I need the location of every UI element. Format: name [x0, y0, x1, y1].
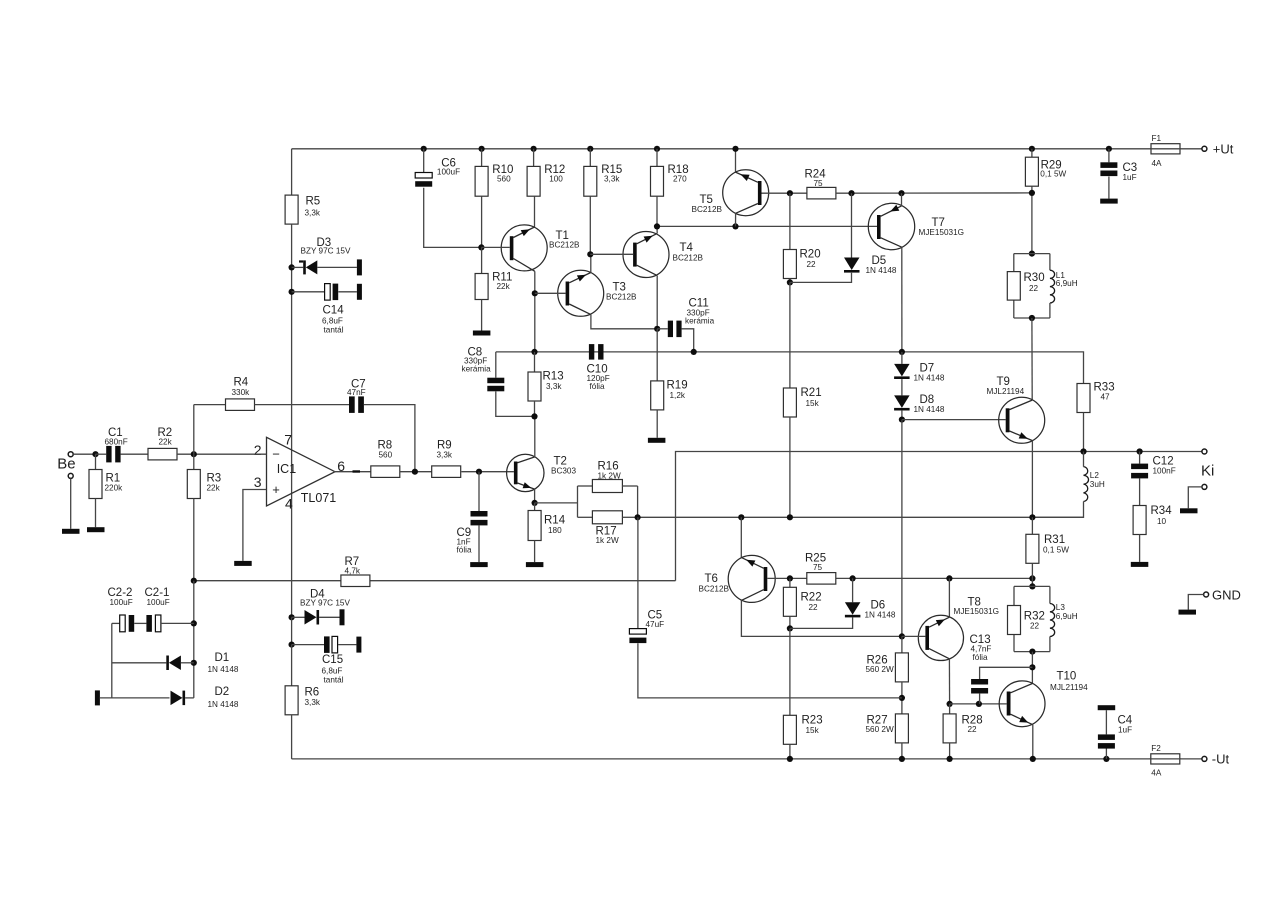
node R20 top — [787, 190, 793, 196]
transistor T10 — [999, 671, 1088, 727]
resistor R6 — [285, 686, 321, 715]
svg-text:BZY 97C 15V: BZY 97C 15V — [301, 247, 351, 256]
svg-text:4: 4 — [285, 496, 293, 512]
wire R5 branch from +Ut — [291, 149, 293, 195]
svg-text:tantál: tantál — [324, 676, 344, 685]
wire R12 top lead — [533, 149, 535, 167]
svg-text:15k: 15k — [806, 399, 820, 408]
resistor R10 — [475, 164, 513, 196]
svg-text:BC212B: BC212B — [692, 205, 723, 214]
wire Be ground lead — [70, 478, 72, 528]
resistor R15 — [584, 164, 623, 196]
node C14 junction — [289, 289, 295, 295]
wire T10 base line — [950, 703, 1007, 705]
svg-text:R30: R30 — [1024, 272, 1045, 284]
diode D5 — [790, 193, 897, 282]
resistor R32 — [1008, 606, 1045, 635]
wire R29 bottom — [1031, 186, 1033, 253]
ground R19 — [648, 438, 666, 443]
svg-text:BC212B: BC212B — [549, 241, 580, 250]
wire R19 to ground — [656, 410, 658, 438]
svg-text:1uF: 1uF — [1118, 726, 1132, 735]
svg-text:-Ut: -Ut — [1212, 752, 1230, 767]
diode D6 — [790, 578, 896, 628]
svg-text:22: 22 — [968, 725, 978, 734]
resistor R20 — [783, 249, 820, 279]
svg-text:BC212B: BC212B — [699, 585, 730, 594]
wire T7 emitter — [901, 193, 903, 206]
svg-text:1N 4148: 1N 4148 — [208, 700, 239, 709]
wire R8 to R9 — [400, 471, 432, 473]
wire -Ut bottom rail — [292, 758, 1202, 760]
resistor R29 — [1025, 157, 1066, 186]
wire output rail — [638, 516, 1084, 518]
svg-text:1N 4148: 1N 4148 — [208, 665, 239, 674]
fuse F2 — [1150, 744, 1181, 778]
wire T6 collector — [741, 600, 902, 636]
wire D7 to D8 — [901, 379, 903, 395]
wire pin3 to ground — [243, 490, 266, 561]
resistor R30 — [1007, 272, 1044, 301]
node -Ut R28 — [947, 756, 953, 762]
node D4 junction — [289, 614, 295, 620]
svg-text:100: 100 — [549, 175, 563, 184]
wire R22 bottom — [789, 616, 791, 628]
svg-text:T4: T4 — [680, 242, 694, 254]
wire feedback up — [193, 405, 195, 455]
node D6 top — [850, 575, 856, 581]
svg-text:22: 22 — [1029, 284, 1039, 293]
svg-text:R14: R14 — [544, 515, 566, 527]
wire R31 top lead — [1031, 517, 1033, 534]
wire +Ut top rail — [292, 148, 1202, 150]
node C15 junction — [289, 642, 295, 648]
node T6 emitter top — [738, 514, 744, 520]
capacitor C8 — [462, 347, 535, 417]
svg-text:1k 2W: 1k 2W — [596, 536, 619, 545]
capacitor C10 — [587, 344, 610, 391]
ground pin3 — [234, 561, 252, 566]
wire C2 mid — [134, 622, 146, 624]
wire R2 to pin2 node — [177, 453, 194, 455]
resistor R16 — [592, 461, 622, 493]
node input — [92, 451, 98, 457]
wire R18 top lead — [656, 149, 658, 167]
wire T1 base node to R11 — [481, 247, 483, 273]
wire R16/R17 right bus — [637, 486, 639, 517]
capacitor C2-2 — [108, 587, 135, 632]
svg-text:fólia: fólia — [973, 653, 988, 662]
svg-text:22k: 22k — [159, 438, 173, 447]
wire T10 emitter — [1032, 725, 1034, 759]
wire R23 lead — [789, 628, 791, 715]
resistor R1 — [89, 454, 123, 527]
wire R17 right lead — [622, 516, 637, 518]
node C11 branch — [691, 349, 697, 355]
wire R32/L3 bottom bus — [1014, 651, 1050, 653]
node T9 emitter/R31 — [1029, 514, 1035, 520]
svg-text:T10: T10 — [1057, 671, 1077, 683]
svg-text:Ki: Ki — [1201, 462, 1214, 479]
resistor R18 — [651, 164, 689, 196]
diode D2 — [100, 686, 239, 709]
svg-text:47: 47 — [1101, 393, 1111, 402]
wire R28 lead — [949, 704, 951, 714]
svg-text:R22: R22 — [801, 592, 822, 604]
wire R16 right lead — [622, 485, 637, 487]
wire T5 base to R24 — [762, 192, 807, 194]
inductor L2 — [1032, 452, 1105, 518]
terminal Be ground — [68, 473, 73, 478]
wire R6 to -Ut rail — [291, 715, 293, 759]
node T8 base — [899, 633, 905, 639]
wire T7 collector to D7 — [901, 352, 903, 364]
resistor R26 — [866, 653, 909, 682]
resistor R8 — [371, 440, 400, 478]
node R18 top — [654, 146, 660, 152]
svg-text:3uH: 3uH — [1090, 480, 1105, 489]
wire T6 base line — [767, 577, 1032, 579]
wire R16 left lead — [578, 485, 593, 487]
svg-text:330k: 330k — [232, 388, 251, 397]
svg-text:100uF: 100uF — [147, 598, 170, 607]
svg-text:22: 22 — [809, 603, 819, 612]
resistor R23 — [783, 715, 822, 745]
wire C7 to output node — [364, 405, 415, 472]
svg-text:180: 180 — [548, 526, 562, 535]
resistor R3 — [187, 454, 221, 498]
node C9 junction — [476, 469, 482, 475]
svg-text:BC212B: BC212B — [606, 293, 637, 302]
wire R7 line — [194, 580, 676, 582]
ground D2 left — [95, 690, 100, 705]
svg-text:D1: D1 — [215, 652, 230, 664]
svg-text:IC1: IC1 — [277, 462, 297, 476]
resistor R2 — [148, 427, 177, 460]
wire T4 collector node down to R19 — [656, 329, 658, 381]
capacitor C15 — [292, 636, 357, 684]
transistor T8 — [918, 597, 999, 661]
svg-text:TL071: TL071 — [301, 491, 336, 505]
svg-text:kerámia: kerámia — [462, 365, 492, 374]
svg-text:1k 2W: 1k 2W — [598, 471, 621, 480]
node C2 junction — [191, 620, 197, 626]
node C3 top — [1106, 146, 1112, 152]
wire T8 collector — [948, 578, 950, 617]
terminal Be input — [57, 452, 75, 473]
node R13 top — [531, 349, 537, 355]
svg-text:22k: 22k — [207, 484, 221, 493]
ground R34 — [1131, 562, 1149, 567]
wire T2 emitter to R16/R17 — [535, 502, 578, 504]
svg-text:3,3k: 3,3k — [437, 451, 453, 460]
transistor T6 — [699, 555, 776, 602]
node mid rail / T7 column — [899, 349, 905, 355]
node C6 top — [421, 146, 427, 152]
transistor T4 — [623, 232, 704, 278]
ground R14 — [526, 562, 544, 567]
svg-text:0,1 5W: 0,1 5W — [1040, 170, 1066, 179]
wire R30/L1 top bus — [1014, 253, 1050, 255]
resistor R17 — [592, 511, 622, 545]
svg-text:0,1 5W: 0,1 5W — [1043, 545, 1069, 554]
wire R27 bottom — [901, 743, 903, 759]
wire R30 left bus — [1013, 254, 1015, 318]
node R26/R27/C5 — [899, 695, 905, 701]
svg-text:MJL21194: MJL21194 — [987, 387, 1025, 396]
wire R10 top lead — [481, 149, 483, 167]
resistor R21 — [783, 387, 821, 417]
transistor T1 — [501, 225, 580, 271]
wire pin2 input — [194, 453, 266, 455]
diode D1 — [112, 652, 239, 674]
wire R13 top lead — [534, 352, 536, 372]
svg-text:R19: R19 — [667, 380, 688, 392]
node D1 junction — [191, 660, 197, 666]
wire feedback to R4 — [194, 404, 226, 406]
resistor R9 — [432, 440, 461, 478]
resistor R5 — [285, 195, 321, 224]
wire output dash — [353, 470, 361, 472]
svg-text:2: 2 — [254, 442, 262, 458]
resistor R12 — [527, 164, 565, 196]
node T4 base — [587, 251, 593, 257]
svg-text:4A: 4A — [1151, 769, 1162, 778]
svg-text:4A: 4A — [1152, 159, 1163, 168]
svg-text:C15: C15 — [322, 654, 343, 666]
wire T4 base lead — [590, 253, 633, 255]
wire R28 bottom — [949, 743, 951, 759]
resistor R34 — [1133, 505, 1172, 535]
wire T2 emitter — [534, 489, 536, 503]
ground R1 — [87, 527, 105, 532]
node T5 collector junction — [732, 223, 738, 229]
ground D3 — [357, 259, 362, 275]
svg-text:560: 560 — [379, 451, 393, 460]
svg-text:tantál: tantál — [324, 326, 344, 335]
inductor L3 — [1050, 586, 1078, 651]
capacitor C12 — [1131, 452, 1176, 506]
svg-text:1uF: 1uF — [1123, 173, 1137, 182]
transistor T7 — [868, 203, 964, 249]
svg-text:6,9uH: 6,9uH — [1056, 279, 1078, 288]
svg-text:3,3k: 3,3k — [604, 175, 620, 184]
wire R32 left bus — [1013, 586, 1015, 651]
svg-text:270: 270 — [673, 175, 687, 184]
svg-text:BC212B: BC212B — [673, 254, 704, 263]
ground C4 — [1098, 705, 1116, 710]
wire T6 emitter — [740, 517, 742, 557]
svg-text:fólia: fólia — [457, 546, 472, 555]
node T8 collector top — [946, 575, 952, 581]
capacitor C3 — [1100, 149, 1137, 199]
wire T1 base lead — [481, 246, 509, 248]
wire R11 to ground — [481, 300, 483, 331]
ground C3 — [1100, 199, 1118, 204]
svg-text:1N 4148: 1N 4148 — [865, 611, 896, 620]
node R30/L1 bottom — [1029, 315, 1035, 321]
svg-text:kerámia: kerámia — [685, 317, 715, 326]
svg-text:L2: L2 — [1090, 471, 1100, 480]
wire T2 collector — [534, 416, 536, 457]
capacitor C11 — [657, 298, 714, 338]
op-amp IC1 — [254, 431, 346, 511]
wire T8 column to R26 — [901, 636, 903, 653]
resistor R33 — [1077, 382, 1115, 413]
svg-text:1,2k: 1,2k — [670, 391, 686, 400]
wire R13 bottom lead — [534, 401, 536, 416]
svg-text:R5: R5 — [306, 196, 321, 208]
capacitor C6 — [415, 149, 460, 187]
svg-text:R23: R23 — [802, 715, 823, 727]
wire R15 top lead — [589, 149, 591, 167]
svg-text:560: 560 — [497, 175, 511, 184]
terminal speaker jack — [1188, 484, 1207, 508]
node R31 bottom — [1029, 575, 1035, 581]
node R29 bottom junction — [1029, 190, 1035, 196]
svg-text:22k: 22k — [497, 282, 511, 291]
wire R33 bottom lead — [1083, 413, 1085, 452]
svg-text:C14: C14 — [323, 305, 345, 317]
svg-text:−: − — [272, 446, 280, 461]
node R22 top — [787, 575, 793, 581]
diode D7 — [894, 363, 945, 383]
wire R22 lead — [789, 578, 791, 587]
resistor R22 — [783, 587, 821, 616]
diode D8 — [894, 394, 945, 414]
wire T8 emitter — [948, 659, 950, 704]
svg-text:R20: R20 — [800, 249, 821, 261]
transistor T3 — [558, 270, 637, 316]
svg-text:BZY 97C 15V: BZY 97C 15V — [300, 599, 350, 608]
svg-text:MJL21194: MJL21194 — [1050, 683, 1088, 692]
svg-text:+: + — [272, 482, 280, 497]
node R13 bottom — [531, 413, 537, 419]
wire to T9 collector — [1031, 318, 1033, 400]
node T9 base — [899, 417, 905, 423]
node C13 bottom — [976, 701, 982, 707]
svg-text:3,3k: 3,3k — [546, 382, 562, 391]
ground GND — [1179, 610, 1197, 615]
node T8 emitter / T10 base — [947, 701, 953, 707]
svg-text:22: 22 — [807, 260, 817, 269]
wire R21 lead — [789, 282, 791, 388]
terminal -Ut — [1202, 752, 1230, 767]
wire R20 bottom — [789, 279, 791, 283]
resistor R19 — [651, 380, 688, 410]
terminal +Ut — [1202, 141, 1234, 156]
wire T3 base lead — [535, 292, 566, 294]
wire T1 collector — [534, 271, 536, 352]
diode D3 zener — [292, 237, 357, 275]
svg-text:L3: L3 — [1056, 603, 1066, 612]
svg-text:3,3k: 3,3k — [305, 698, 321, 707]
svg-text:10: 10 — [1157, 517, 1167, 526]
svg-text:15k: 15k — [806, 726, 820, 735]
wire T3 collector — [591, 315, 657, 329]
terminal GND — [1188, 587, 1241, 609]
capacitor C5 — [629, 517, 902, 698]
node R20 bottom — [787, 279, 793, 285]
svg-text:D2: D2 — [215, 686, 230, 698]
ground Be — [62, 529, 80, 534]
transistor T9 — [987, 376, 1045, 443]
terminal Ki — [1201, 449, 1214, 479]
node C12 top — [1137, 448, 1143, 454]
node R29 top — [1029, 146, 1035, 152]
ground C14 — [357, 284, 362, 300]
fuse F1 — [1150, 134, 1181, 168]
wire T5 collector — [735, 213, 737, 226]
wire R5 to D3/C14 node — [291, 224, 293, 405]
svg-text:560 2W: 560 2W — [866, 665, 894, 674]
wire T9 base line — [902, 419, 1006, 421]
node T1 base — [478, 244, 484, 250]
svg-text:1N 4148: 1N 4148 — [866, 266, 897, 275]
svg-text:R6: R6 — [305, 687, 320, 699]
wire T7 collector — [901, 247, 903, 352]
svg-text:6,9uH: 6,9uH — [1056, 612, 1078, 621]
wire R34 to ground — [1139, 535, 1141, 562]
wire D4 to C15 node — [291, 617, 293, 644]
node R32/L3 bottom — [1029, 649, 1035, 655]
wire R15 to T4 base node — [589, 196, 591, 254]
wire output sense line — [676, 452, 1202, 581]
resistor R24 — [805, 169, 836, 199]
resistor R28 — [943, 714, 983, 743]
wire R31 bottom lead — [1031, 563, 1033, 586]
node -Ut R23 — [787, 756, 793, 762]
wire T3 emitter — [590, 254, 592, 272]
resistor R31 — [1026, 534, 1069, 563]
svg-text:3: 3 — [254, 474, 262, 490]
wire R24 to T7 — [836, 192, 1032, 194]
wire mid rail — [496, 352, 1084, 384]
svg-text:MJE15031G: MJE15031G — [954, 607, 1000, 616]
svg-text:R21: R21 — [801, 387, 822, 399]
svg-text:R4: R4 — [234, 377, 249, 389]
wire R9 to T2 base — [461, 471, 514, 473]
node R30/L1 top — [1029, 251, 1035, 257]
node R22 bottom — [787, 625, 793, 631]
node -Ut R27 — [899, 756, 905, 762]
wire D8 to T9 base node — [901, 411, 903, 420]
wire R29 top lead — [1031, 149, 1033, 157]
node T7 collector junction — [898, 190, 904, 196]
ground R11 — [473, 331, 491, 336]
transistor T5 — [692, 170, 769, 216]
wire R3 to feedback rail — [193, 499, 195, 581]
svg-text:F2: F2 — [1151, 744, 1161, 753]
wire R4 to C7 — [255, 404, 350, 406]
resistor R13 — [528, 371, 564, 402]
ground C9 — [470, 562, 488, 567]
svg-text:100uF: 100uF — [110, 598, 133, 607]
wire Be to C1 — [73, 453, 95, 455]
svg-text:R34: R34 — [1151, 505, 1173, 517]
svg-text:1N 4148: 1N 4148 — [914, 374, 945, 383]
wire T4 collector — [656, 276, 658, 329]
capacitor C2-1 — [145, 587, 194, 632]
inductor L1 — [1050, 254, 1078, 318]
node R8/R9/C7 — [412, 469, 418, 475]
wire R30/L1 bottom bus — [1014, 317, 1050, 319]
wire R20 lead — [789, 193, 791, 249]
resistor R4 — [226, 377, 255, 411]
wire T8 base lead — [902, 635, 926, 637]
wire T5 emitter from rail — [735, 149, 737, 172]
resistor R14 — [528, 503, 566, 562]
